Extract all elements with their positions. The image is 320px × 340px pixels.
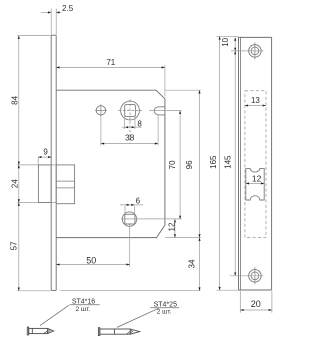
- svg-text:8: 8: [137, 120, 142, 129]
- svg-text:57: 57: [10, 241, 19, 250]
- svg-text:ST4*16: ST4*16: [72, 299, 95, 306]
- svg-text:2 шт.: 2 шт.: [75, 306, 90, 313]
- svg-text:145: 145: [223, 155, 232, 169]
- svg-text:12: 12: [167, 222, 176, 231]
- svg-text:10: 10: [221, 37, 230, 46]
- svg-text:50: 50: [86, 255, 96, 265]
- svg-text:96: 96: [185, 160, 194, 169]
- svg-text:165: 165: [209, 155, 218, 169]
- svg-text:12: 12: [252, 174, 262, 184]
- svg-text:71: 71: [106, 58, 115, 67]
- svg-text:24: 24: [11, 179, 20, 188]
- svg-text:2 шт.: 2 шт.: [157, 309, 172, 316]
- svg-text:9: 9: [43, 147, 48, 156]
- svg-text:13: 13: [251, 96, 260, 105]
- svg-text:70: 70: [168, 160, 177, 169]
- svg-text:2.5: 2.5: [62, 4, 74, 13]
- svg-text:84: 84: [11, 95, 20, 104]
- svg-text:ST4*25: ST4*25: [154, 302, 177, 309]
- svg-text:34: 34: [187, 259, 196, 268]
- svg-text:38: 38: [125, 133, 135, 143]
- svg-text:20: 20: [251, 299, 261, 309]
- svg-text:6: 6: [136, 197, 141, 206]
